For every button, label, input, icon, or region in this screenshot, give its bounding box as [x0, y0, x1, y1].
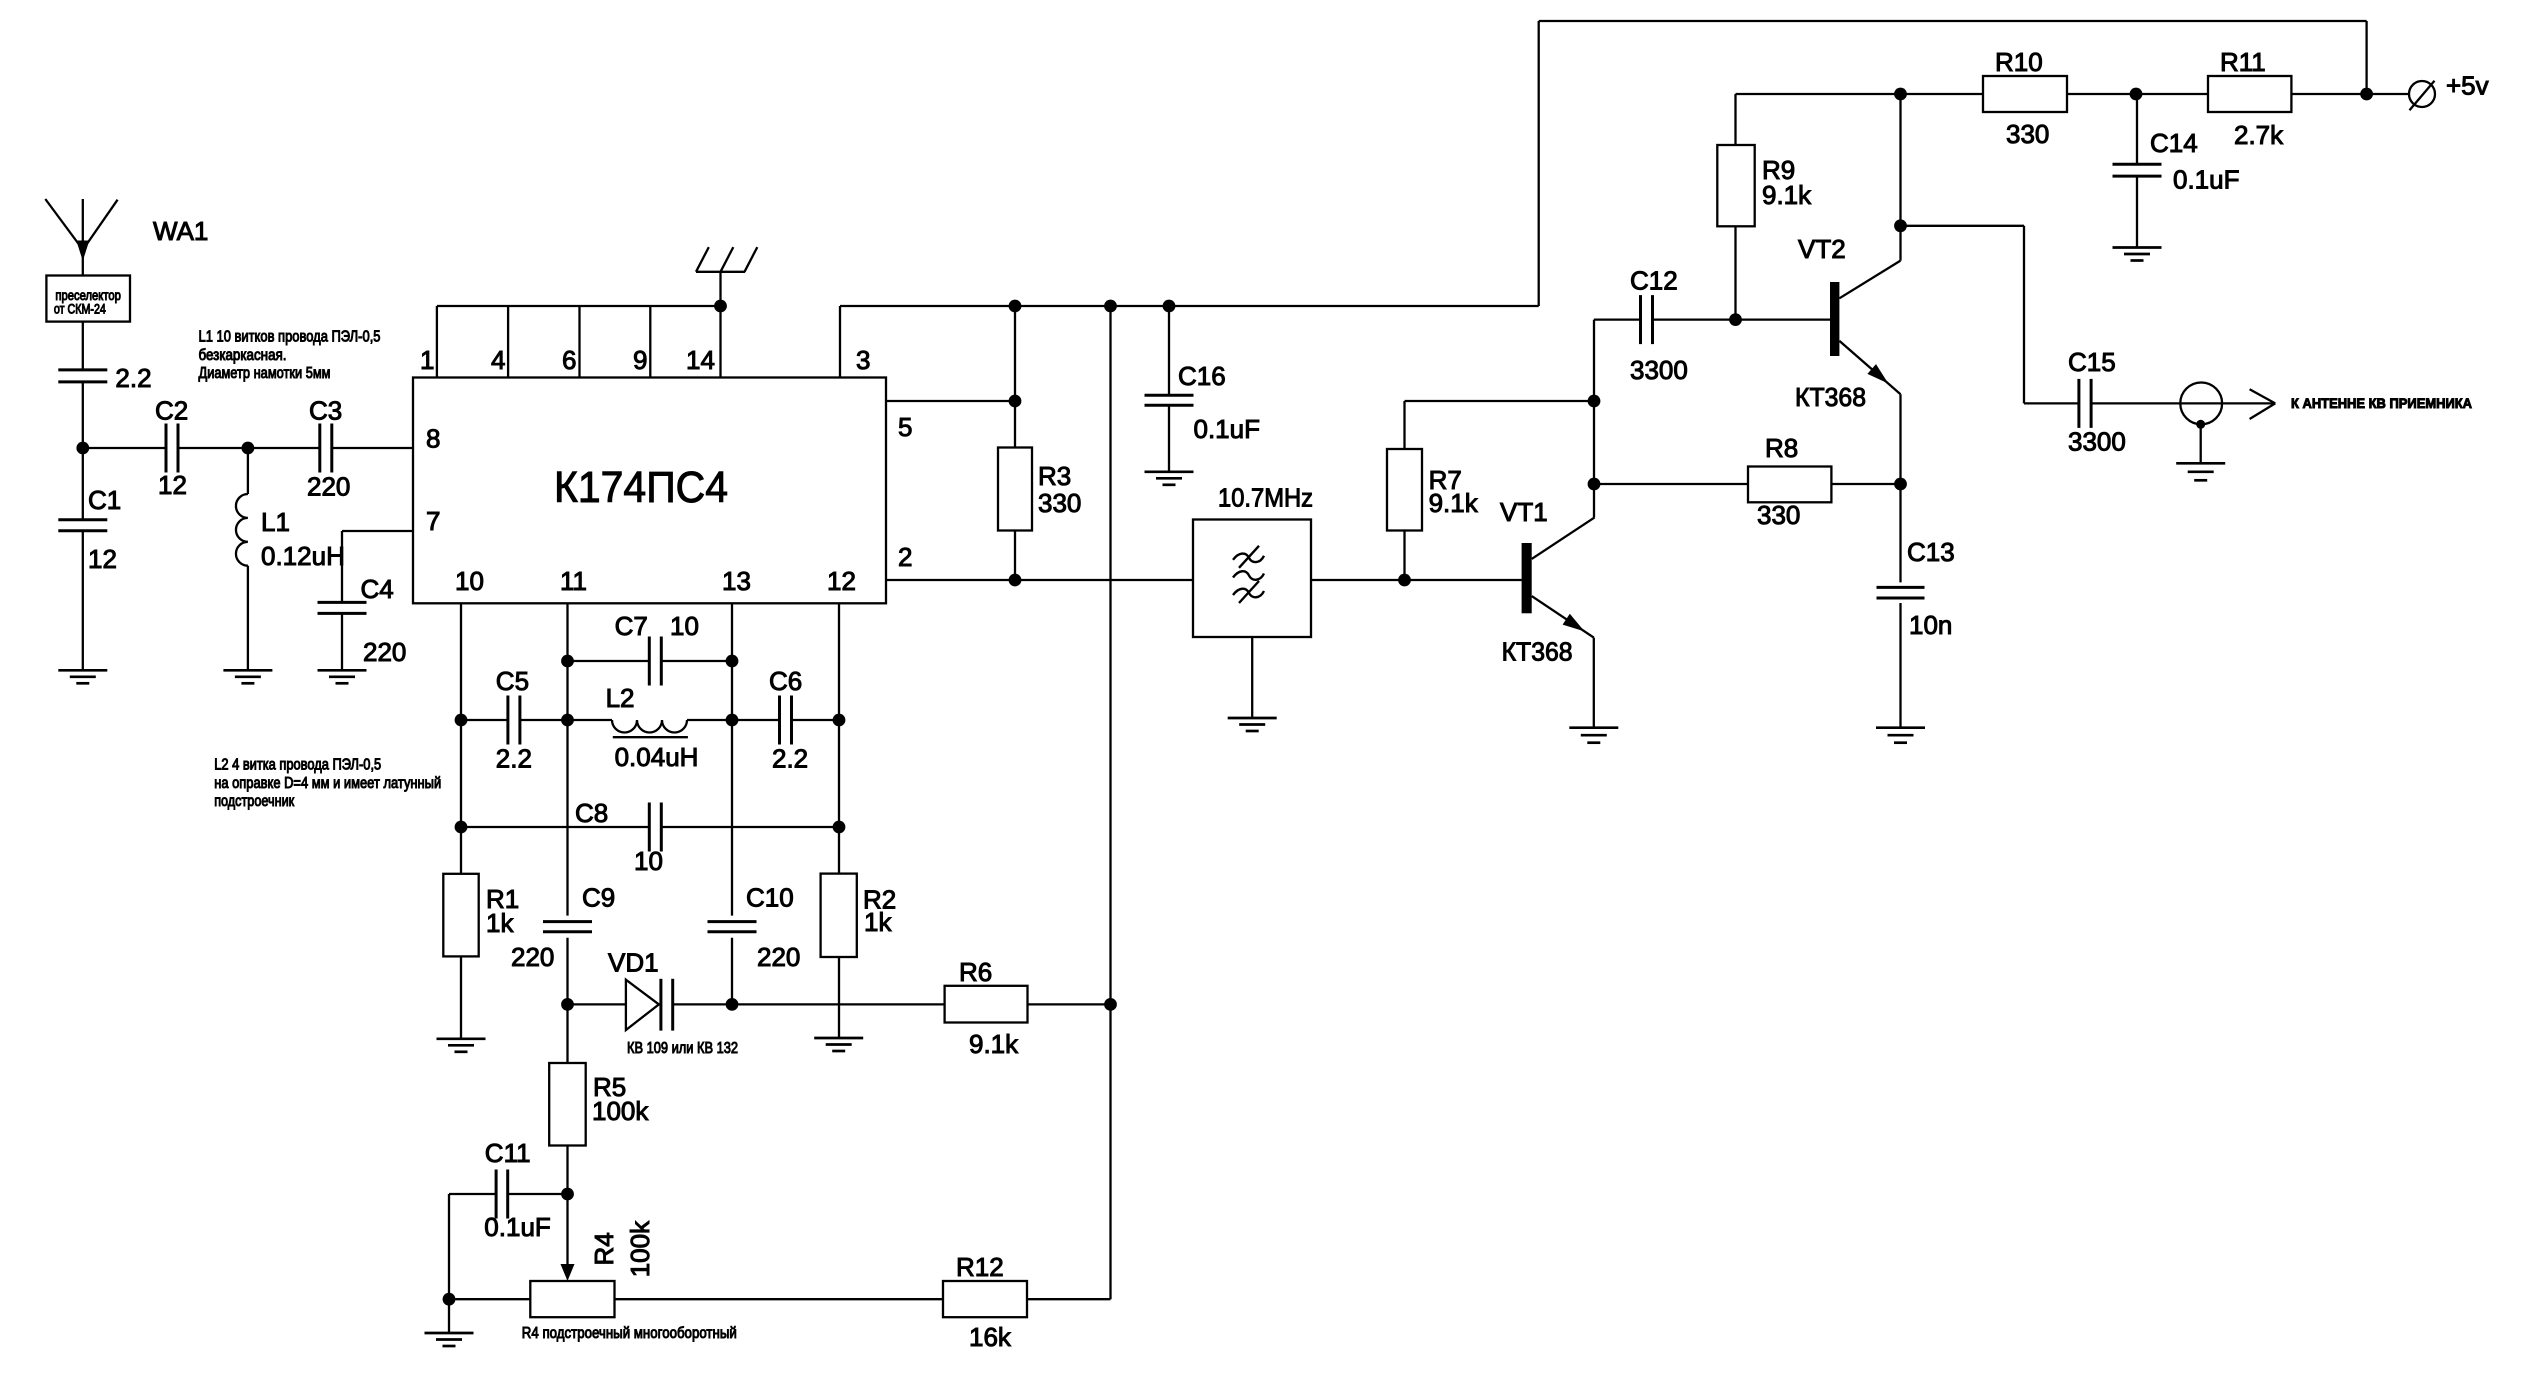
svg-text:9.1k: 9.1k	[1762, 180, 1812, 210]
svg-text:6: 6	[562, 345, 576, 375]
svg-text:3300: 3300	[1630, 355, 1688, 385]
svg-text:КТ368: КТ368	[1502, 637, 1573, 667]
svg-text:C7: C7	[615, 611, 648, 641]
svg-text:C13: C13	[1907, 537, 1955, 567]
svg-text:подстроечник: подстроечник	[214, 793, 294, 810]
svg-text:R12: R12	[956, 1252, 1004, 1282]
svg-text:1: 1	[420, 345, 434, 375]
svg-text:13: 13	[722, 566, 751, 596]
svg-text:+5v: +5v	[2446, 71, 2489, 101]
svg-text:C3: C3	[309, 396, 342, 426]
svg-text:9.1k: 9.1k	[969, 1029, 1019, 1059]
svg-text:4: 4	[491, 345, 505, 375]
svg-text:WA1: WA1	[153, 216, 208, 246]
svg-text:1k: 1k	[486, 908, 514, 938]
svg-text:2.7k: 2.7k	[2234, 120, 2284, 150]
svg-text:C14: C14	[2150, 128, 2198, 158]
svg-text:100k: 100k	[592, 1096, 649, 1126]
svg-text:VT2: VT2	[1798, 234, 1846, 264]
svg-text:L1: L1	[261, 507, 290, 537]
svg-text:R4 подстроечный многооборотный: R4 подстроечный многооборотный	[522, 1325, 737, 1342]
svg-text:L2 4 витка провода ПЭЛ-0,5: L2 4 витка провода ПЭЛ-0,5	[214, 757, 381, 774]
svg-text:КВ 109 или КВ 132: КВ 109 или КВ 132	[627, 1040, 738, 1057]
svg-text:К174ПС4: К174ПС4	[554, 463, 728, 512]
svg-text:C5: C5	[496, 666, 529, 696]
svg-text:VT1: VT1	[1500, 497, 1548, 527]
svg-text:C8: C8	[575, 798, 608, 828]
svg-text:2: 2	[898, 542, 912, 572]
svg-text:100k: 100k	[625, 1220, 655, 1277]
svg-text:К АНТЕННЕ КВ ПРИЕМНИКА: К АНТЕННЕ КВ ПРИЕМНИКА	[2291, 396, 2472, 412]
svg-text:C16: C16	[1178, 361, 1226, 391]
svg-text:2.2: 2.2	[496, 744, 532, 774]
svg-text:3300: 3300	[2068, 427, 2126, 457]
svg-text:R8: R8	[1765, 433, 1798, 463]
svg-text:R11: R11	[2220, 47, 2266, 77]
svg-text:330: 330	[1038, 488, 1081, 518]
svg-text:7: 7	[426, 506, 440, 536]
svg-text:11: 11	[560, 566, 587, 596]
svg-text:C15: C15	[2068, 347, 2116, 377]
svg-text:R10: R10	[1995, 47, 2043, 77]
svg-text:C2: C2	[155, 396, 188, 426]
svg-text:330: 330	[2006, 119, 2049, 149]
svg-text:220: 220	[307, 472, 350, 502]
svg-text:8: 8	[426, 424, 440, 454]
svg-text:9.1k: 9.1k	[1429, 488, 1479, 518]
svg-text:12: 12	[88, 544, 117, 574]
svg-text:10: 10	[670, 611, 699, 641]
svg-text:VD1: VD1	[608, 948, 659, 978]
svg-text:0.1uF: 0.1uF	[2173, 165, 2240, 195]
svg-text:C9: C9	[582, 883, 615, 913]
svg-text:Диаметр намотки 5мм: Диаметр намотки 5мм	[199, 365, 331, 382]
svg-text:0.1uF: 0.1uF	[484, 1212, 551, 1242]
svg-text:12: 12	[827, 566, 856, 596]
svg-text:220: 220	[363, 637, 406, 667]
svg-text:L2: L2	[606, 683, 635, 713]
svg-text:C12: C12	[1630, 266, 1678, 296]
svg-text:на оправке D=4 мм и имеет лату: на оправке D=4 мм и имеет латунный	[214, 775, 441, 792]
svg-text:220: 220	[757, 942, 800, 972]
svg-text:C10: C10	[746, 883, 794, 913]
svg-text:12: 12	[158, 470, 187, 500]
svg-text:0.12uH: 0.12uH	[261, 541, 345, 571]
svg-text:10: 10	[634, 846, 663, 876]
svg-text:КТ368: КТ368	[1795, 382, 1866, 412]
svg-text:C11: C11	[485, 1138, 531, 1168]
svg-text:330: 330	[1757, 500, 1800, 530]
svg-text:R4: R4	[589, 1232, 619, 1265]
svg-text:16k: 16k	[969, 1322, 1012, 1352]
svg-text:5: 5	[898, 412, 912, 442]
svg-text:10n: 10n	[1909, 610, 1952, 640]
svg-text:0.04uH: 0.04uH	[615, 742, 699, 772]
svg-text:1k: 1k	[864, 907, 892, 937]
svg-text:9: 9	[633, 345, 647, 375]
svg-text:10: 10	[455, 566, 484, 596]
svg-text:безкаркасная.: безкаркасная.	[199, 347, 287, 364]
svg-text:2.2: 2.2	[115, 363, 151, 393]
svg-text:220: 220	[511, 942, 554, 972]
svg-text:14: 14	[686, 345, 715, 375]
svg-text:0.1uF: 0.1uF	[1194, 414, 1261, 444]
svg-text:C4: C4	[361, 574, 394, 604]
svg-text:R6: R6	[959, 957, 992, 987]
svg-text:C6: C6	[769, 666, 802, 696]
svg-text:от СКМ-24: от СКМ-24	[54, 302, 106, 317]
svg-text:L1 10 витков провода ПЭЛ-0,5: L1 10 витков провода ПЭЛ-0,5	[199, 329, 381, 346]
svg-text:3: 3	[856, 345, 870, 375]
svg-text:2.2: 2.2	[772, 744, 808, 774]
svg-text:R3: R3	[1038, 461, 1071, 491]
svg-text:C1: C1	[88, 485, 121, 515]
svg-text:10.7MHz: 10.7MHz	[1218, 483, 1313, 513]
